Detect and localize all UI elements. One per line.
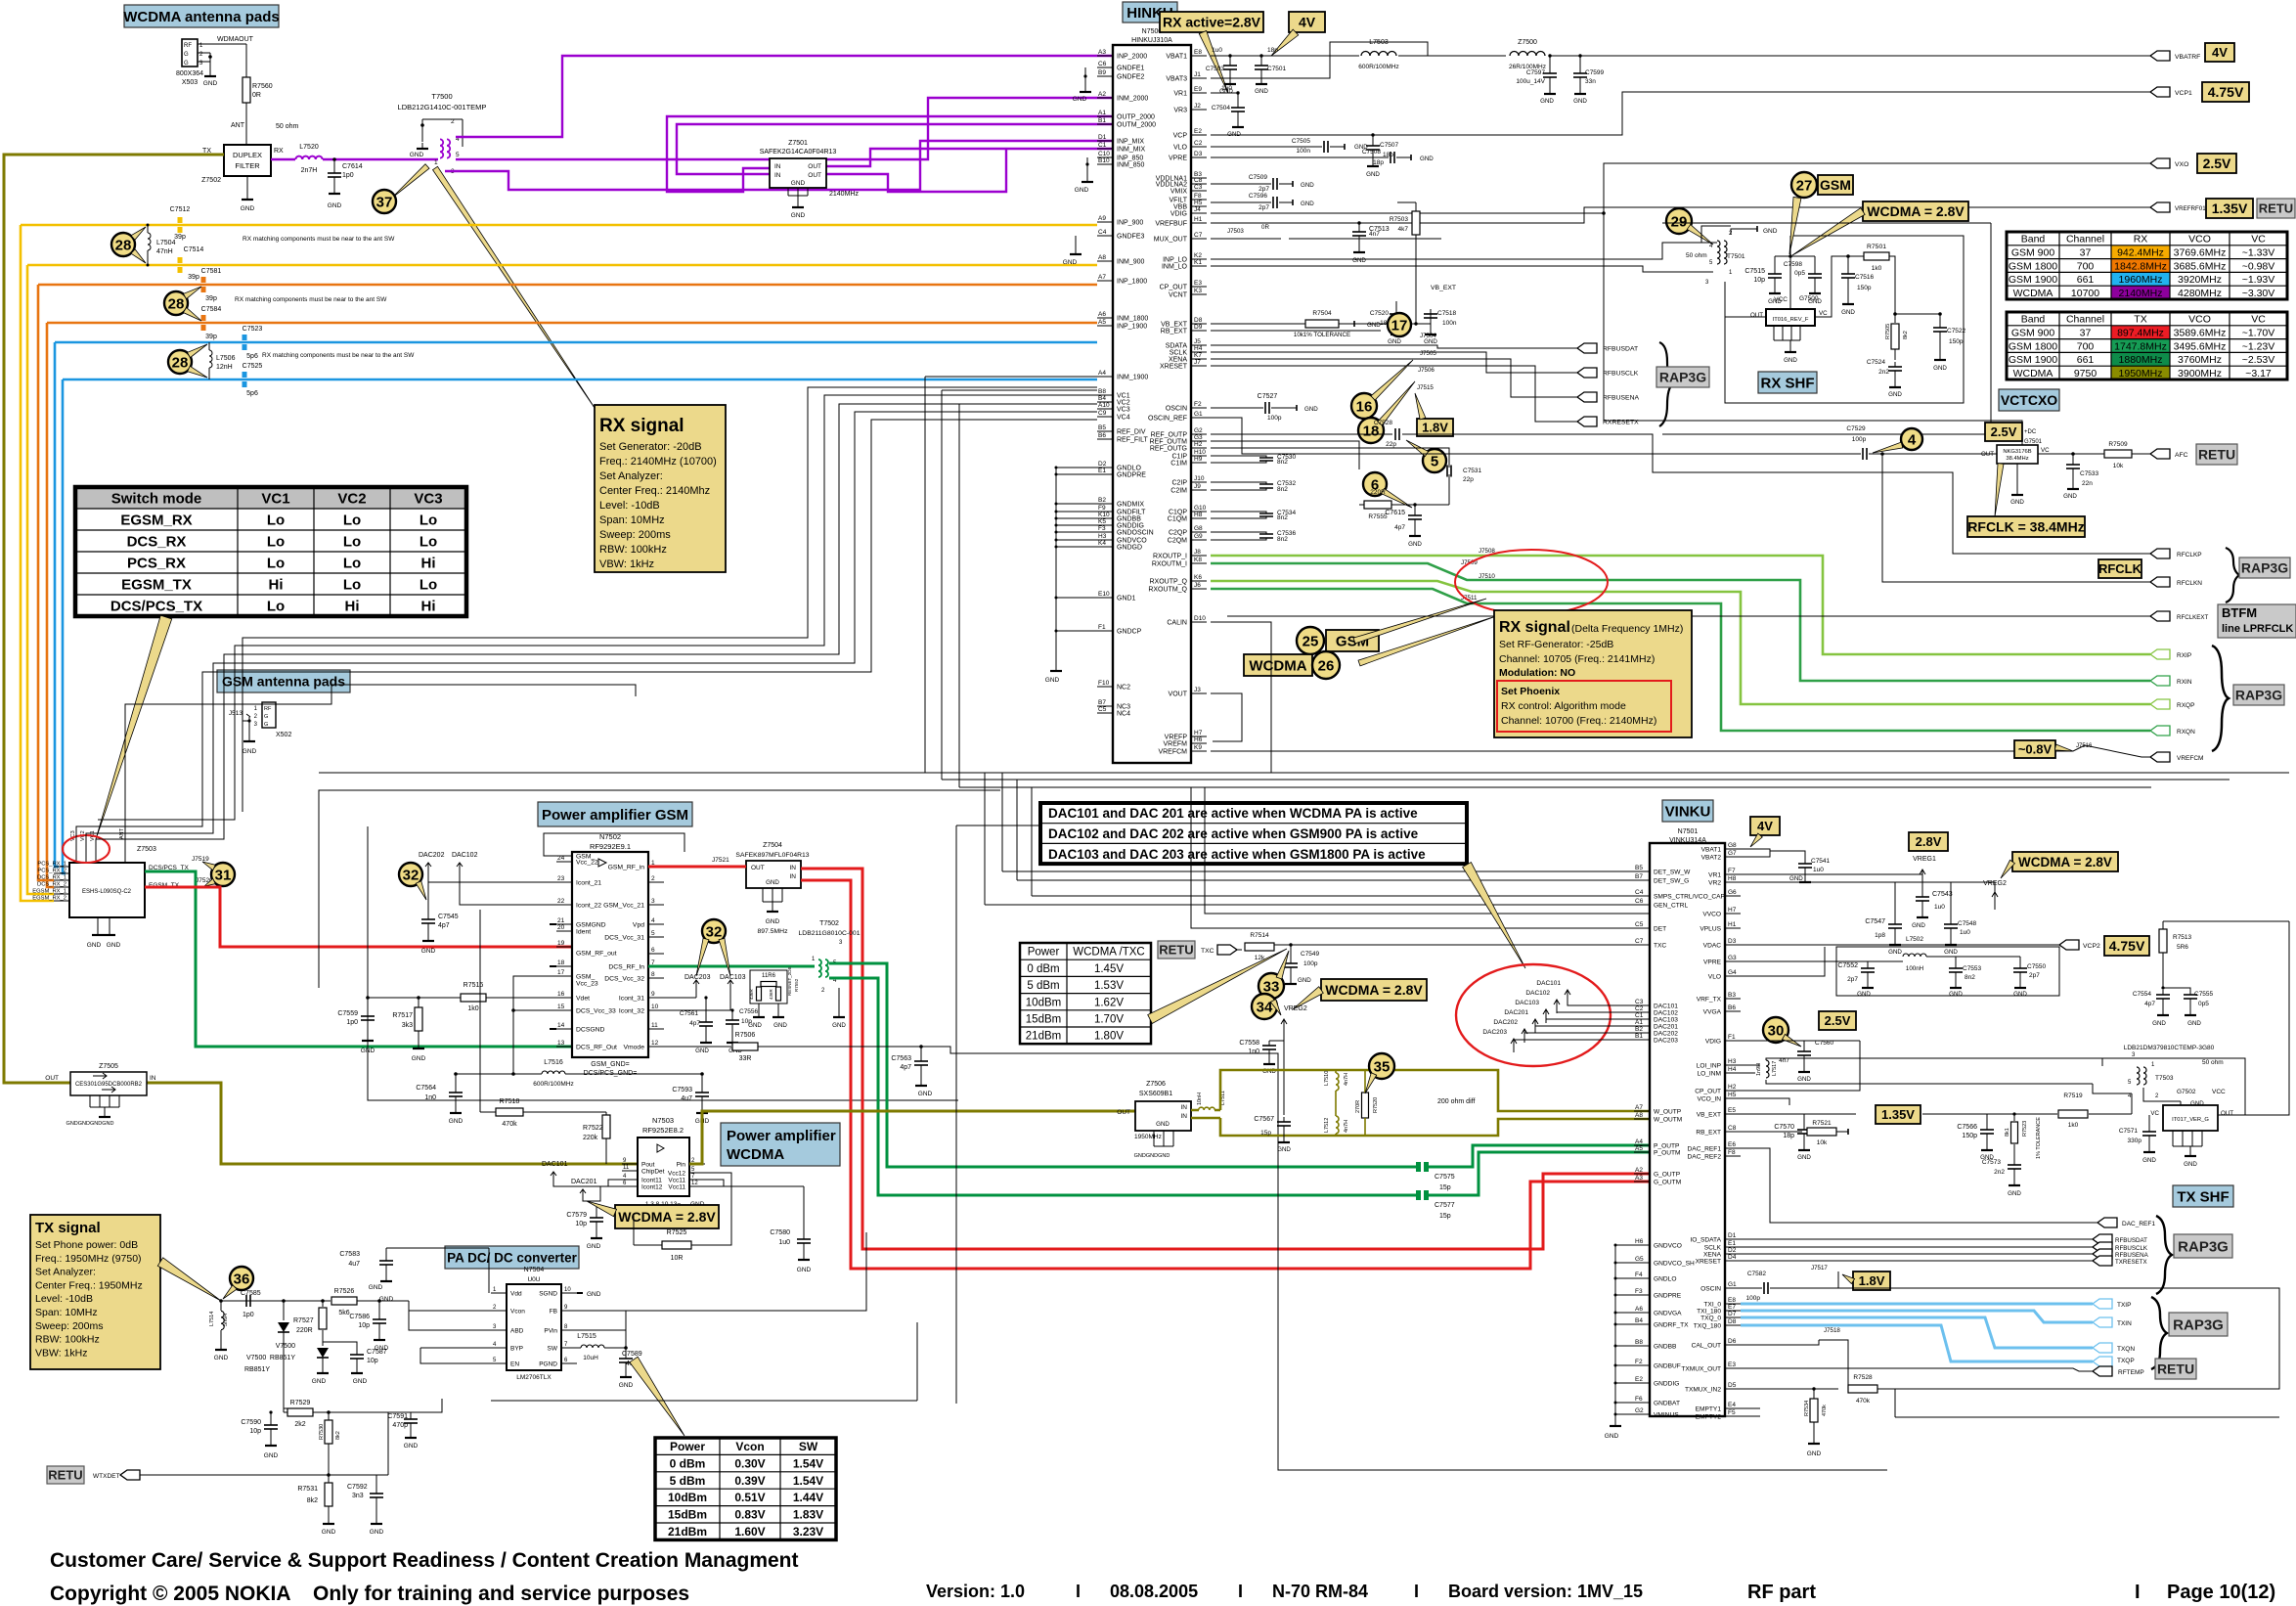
svg-text:3k3: 3k3 [402,1022,413,1029]
svg-text:N7501: N7501 [1678,828,1699,835]
svg-text:10dBm: 10dBm [668,1491,707,1504]
capacitor C7559 [367,1011,369,1016]
connector X503 [182,39,198,67]
svg-text:2: 2 [451,118,455,125]
svg-text:EMPTY1: EMPTY1 [1696,1406,1722,1413]
svg-text:K3: K3 [1194,288,1202,294]
svg-text:GNDBB: GNDBB [1117,516,1141,523]
svg-text:VRF_TX: VRF_TX [1697,997,1722,1004]
svg-text:VBB: VBB [1173,204,1187,211]
svg-text:Lo: Lo [343,533,361,550]
svg-text:Lo: Lo [343,555,361,571]
table RX freq [2111,245,2170,259]
svg-text:8n2: 8n2 [1277,459,1288,466]
svg-text:21dBm: 21dBm [1026,1031,1061,1043]
svg-text:C4: C4 [1635,889,1644,896]
svg-text:50 ohm: 50 ohm [1686,252,1707,259]
svg-text:C7554: C7554 [2133,991,2152,998]
svg-text:C7580: C7580 [770,1229,790,1236]
svg-text:TXI_0: TXI_0 [1703,1302,1721,1309]
svg-text:DAC102 and DAC 202 are ac: DAC102 and DAC 202 are active when GSM90… [1048,826,1419,841]
svg-text:INM_850: INM_850 [1117,162,1145,169]
capacitor C7587 [323,1345,354,1347]
svg-text:K4: K4 [1098,540,1106,547]
svg-text:E2: E2 [1194,128,1202,135]
svg-text:R7504: R7504 [1312,310,1332,317]
svg-text:38.4MHz: 38.4MHz [2006,456,2028,462]
svg-text:A3: A3 [1098,49,1106,56]
svg-text:2p7: 2p7 [2029,972,2040,979]
svg-text:11: 11 [623,1165,630,1171]
svg-text:Ident: Ident [576,929,591,936]
svg-text:BYP: BYP [510,1346,523,1353]
svg-text:C4: C4 [1098,229,1107,236]
svg-text:F9: F9 [1098,505,1106,512]
wires RFCLKP/N [1402,434,2150,554]
capacitor C7577 [1416,1190,1421,1200]
svg-text:J2: J2 [1194,103,1201,110]
wedge to VC pins [96,615,172,839]
svg-text:18p: 18p [1267,47,1278,54]
svg-text:E3: E3 [1728,1361,1736,1368]
svg-text:VCO_IN: VCO_IN [1697,1096,1721,1103]
svg-text:4p7: 4p7 [2144,1001,2155,1007]
capacitor C7579 [596,1213,597,1218]
svg-text:GSM_RF_in: GSM_RF_in [608,865,645,871]
svg-text:1u0: 1u0 [1221,85,1232,92]
svg-text:Hi: Hi [421,598,436,614]
svg-text:~3.17: ~3.17 [2245,368,2272,379]
inductor L7520 [295,156,322,159]
svg-text:C7593: C7593 [672,1087,692,1093]
annotation 4V top [1289,12,1325,32]
RF bus wires [1211,345,1577,348]
svg-text:D3: D3 [1194,151,1203,157]
svg-text:GNDMIX: GNDMIX [1117,502,1144,509]
svg-text:22p: 22p [1386,441,1396,448]
svg-text:Freq.: 2140MHz (10700): Freq.: 2140MHz (10700) [599,456,717,468]
svg-text:21: 21 [557,917,565,924]
svg-text:H8: H8 [1194,512,1203,518]
inductor L7517 [1741,1064,1760,1066]
capacitor C7518 [1430,305,1432,307]
circle 25 GSM [1297,627,1324,654]
svg-text:DAC202: DAC202 [1654,1031,1678,1038]
svg-text:1.45V: 1.45V [1094,963,1124,975]
svg-text:~1.70V: ~1.70V [2242,327,2275,338]
svg-text:CALIN: CALIN [1167,620,1187,627]
label WCDMA antenna pads [124,5,279,27]
antenna switch Z7503 ESHS-L090SQ-C2 [69,863,145,917]
svg-text:C7501: C7501 [1267,66,1287,72]
svg-text:TXQN: TXQN [2117,1346,2135,1353]
label PA DC/DC converter [445,1246,579,1269]
svg-text:4: 4 [1908,431,1917,448]
wires green to VINKU [829,963,1416,1167]
wire olive Pin out to Z7506 [689,1111,1135,1164]
svg-text:PCS_RX: PCS_RX [127,555,186,571]
svg-text:N7504: N7504 [524,1267,545,1273]
svg-text:J7521: J7521 [712,857,729,864]
svg-text:1u0: 1u0 [1934,904,1945,911]
svg-text:~3.30V: ~3.30V [2242,288,2275,299]
svg-text:RFBUSDAT: RFBUSDAT [2115,1237,2147,1244]
svg-text:Level: -10dB: Level: -10dB [599,500,660,512]
svg-text:220R: 220R [296,1327,313,1334]
svg-text:Channel: 10700 (Freq.: 2140MHz: Channel: 10700 (Freq.: 2140MHz) [1501,715,1656,727]
svg-text:U0U: U0U [527,1276,540,1283]
svg-text:A2: A2 [1098,91,1106,98]
svg-text:C7575: C7575 [1435,1174,1455,1181]
svg-text:Power amplifier GSM: Power amplifier GSM [542,807,688,824]
wire yellow EGSM RX row1 [21,224,1097,227]
svg-text:H4: H4 [1194,345,1203,352]
svg-text:GND: GND [2010,499,2024,506]
svg-text:DCS_RX_2: DCS_RX_2 [37,882,66,888]
svg-text:GND: GND [361,1048,375,1054]
svg-text:A4: A4 [1635,1138,1643,1145]
annotation 1.35V [1876,1105,1921,1124]
svg-text:Board version: 1MV_15: Board version: 1MV_15 [1448,1582,1643,1601]
svg-text:2.5V: 2.5V [1991,424,2017,439]
svg-text:TXI_180: TXI_180 [1697,1309,1721,1316]
wire VBAT3 loop [1211,42,1428,78]
svg-text:GNDFE2: GNDFE2 [1117,74,1145,81]
svg-text:C9: C9 [1098,410,1107,417]
svg-text:C7523: C7523 [243,326,263,333]
capacitor C7553 [1955,957,1957,963]
svg-text:DAC201: DAC201 [571,1179,597,1185]
RETU TXC [1158,941,1195,959]
svg-text:GND: GND [587,1291,601,1298]
svg-text:OUT: OUT [2221,1110,2233,1117]
svg-text:VCP: VCP [1173,133,1188,140]
DAC_REF wires [1741,1148,2097,1223]
svg-text:A5: A5 [1098,319,1106,326]
svg-text:1.53V: 1.53V [1094,980,1124,992]
svg-text:C7528: C7528 [1374,420,1393,426]
svg-text:Switch mode: Switch mode [111,490,202,507]
svg-text:VBW: 1kHz: VBW: 1kHz [35,1347,87,1359]
svg-text:8n2: 8n2 [1277,486,1288,493]
svg-text:WCDMA: WCDMA [2013,368,2053,379]
svg-text:DAC_REF1: DAC_REF1 [2122,1221,2155,1227]
svg-text:GND: GND [1301,201,1314,207]
MUX_OUT [1211,238,1281,240]
svg-text:GND: GND [1933,365,1947,372]
CAL_OUT [1741,1340,1819,1345]
svg-text:1% TOLERANCE: 1% TOLERANCE [2036,1117,2042,1159]
svg-text:F3: F3 [1635,1288,1643,1295]
resistor R7526 [284,1300,318,1302]
svg-text:J7: J7 [1194,359,1201,366]
svg-text:4p7: 4p7 [1394,524,1405,531]
svg-text:J7517: J7517 [1811,1265,1828,1271]
svg-text:VPRE: VPRE [1703,959,1722,966]
svg-text:E3: E3 [1194,280,1202,287]
svg-text:PGND: PGND [539,1361,557,1368]
svg-text:GNDPRE: GNDPRE [1654,1293,1682,1300]
svg-text:C7567: C7567 [1254,1116,1274,1123]
wire orange DCS RX row1 [38,284,1097,287]
svg-text:B1: B1 [1635,1033,1643,1040]
circle 16 [1351,393,1377,419]
svg-text:Copyright © 2005 NOKIA: Copyright © 2005 NOKIA [50,1583,291,1605]
wire VC to AFC [2038,453,2108,455]
svg-text:VBAT1: VBAT1 [1166,54,1187,61]
svg-text:K5: K5 [1098,518,1106,525]
annotation ~0.8V [2014,740,2055,758]
svg-text:R7552: R7552 [794,978,799,992]
svg-text:15p: 15p [1260,1130,1271,1137]
svg-text:GND: GND [2187,1020,2201,1027]
capacitor C7561 [705,998,707,1017]
svg-text:GND: GND [766,879,779,886]
svg-text:C2IP: C2IP [1171,480,1187,487]
svg-text:VPLUS: VPLUS [1700,926,1721,933]
svg-text:INP_LO: INP_LO [1163,257,1187,264]
circle 28 c [168,350,192,374]
svg-text:GNDFE1: GNDFE1 [1117,66,1145,72]
wire red EGSM TX [145,887,572,947]
svg-text:VC1: VC1 [1117,393,1130,400]
svg-text:VB_EXT: VB_EXT [1697,1112,1721,1119]
svg-text:RFCLKP: RFCLKP [2177,552,2202,558]
svg-text:J7504: J7504 [1420,333,1436,339]
svg-text:4u7: 4u7 [348,1261,360,1268]
svg-text:F5: F5 [1728,1409,1736,1416]
svg-text:A5: A5 [1635,1145,1643,1152]
svg-text:C7592: C7592 [347,1484,368,1491]
svg-text:2p7: 2p7 [1258,186,1269,193]
svg-text:C7533: C7533 [2080,470,2099,477]
svg-text:4280MHz: 4280MHz [2178,288,2222,299]
svg-text:RETU: RETU [48,1468,82,1483]
svg-text:150p: 150p [1962,1133,1977,1139]
DAC table [1040,823,1467,825]
wedge to power table [630,1357,684,1436]
svg-text:Hi: Hi [345,598,360,614]
svg-text:ChipDet: ChipDet [641,1169,665,1176]
svg-text:VC: VC [2251,314,2266,326]
svg-text:VLO: VLO [1173,145,1188,152]
svg-text:C7522: C7522 [1947,328,1966,335]
svg-text:19: 19 [557,940,565,947]
svg-text:18p: 18p [1783,1133,1794,1139]
svg-text:R7503: R7503 [1390,216,1409,223]
svg-text:GSM_RF_out: GSM_RF_out [576,951,617,958]
svg-text:R7509: R7509 [2108,441,2128,448]
svg-text:DET_SW_W: DET_SW_W [1654,870,1691,876]
capacitor C7571 [2148,1115,2150,1127]
svg-text:H7: H7 [1194,730,1203,736]
svg-text:IO_SDATA: IO_SDATA [1690,1237,1721,1244]
wire TX detect node [160,1300,221,1302]
svg-text:VBATRF: VBATRF [2175,54,2200,61]
svg-text:C7549: C7549 [1301,951,1320,958]
svg-text:8k2: 8k2 [307,1497,318,1504]
circle 34 [1252,994,1277,1019]
svg-text:Span: 10MHz: Span: 10MHz [35,1307,98,1318]
svg-text:B2: B2 [1635,1026,1643,1033]
svg-text:700: 700 [2077,260,2095,272]
svg-text:LDB212G1410C-001TEMP: LDB212G1410C-001TEMP [398,103,487,112]
svg-text:VREG2: VREG2 [1284,1005,1307,1012]
svg-text:C7582: C7582 [1747,1271,1767,1277]
svg-text:DAC101: DAC101 [542,1161,568,1168]
svg-text:C7596: C7596 [1249,193,1268,200]
capacitor C7614 [332,157,336,161]
wire red verticals to VINKU [801,869,1650,1249]
svg-text:C7598: C7598 [1784,261,1803,268]
svg-text:0.30V: 0.30V [734,1456,765,1470]
resistor R7505 [1893,312,1897,316]
wires CP_OUT VCO_IN [1741,1041,1860,1091]
svg-text:1.70V: 1.70V [1094,1014,1124,1026]
svg-text:RX signal: RX signal [599,416,684,436]
svg-text:DUPLEX: DUPLEX [233,151,262,159]
svg-text:GND: GND [1424,338,1437,345]
capacitor C7570 [1862,1113,1864,1115]
svg-text:SCLK: SCLK [1170,350,1188,357]
svg-text:DCS/PCS_TX: DCS/PCS_TX [110,598,202,614]
capacitor C7575 [1416,1162,1421,1172]
svg-text:L7517: L7517 [1772,1061,1778,1076]
svg-text:8k2: 8k2 [335,1431,341,1440]
svg-text:C7552: C7552 [1837,962,1858,969]
svg-text:H3: H3 [1098,533,1107,540]
svg-text:3: 3 [651,898,655,905]
svg-text:B8: B8 [1635,1339,1643,1346]
svg-text:3n3: 3n3 [352,1493,364,1499]
svg-text:GND: GND [587,1243,601,1250]
svg-text:DCSGND: DCSGND [576,1027,605,1034]
svg-text:PVin: PVin [544,1328,557,1335]
svg-text:ESHS-L090SQ-C2: ESHS-L090SQ-C2 [82,889,132,895]
svg-text:V7500: V7500 [276,1343,295,1350]
svg-text:GNDVGA: GNDVGA [1654,1311,1682,1317]
svg-text:32: 32 [403,867,419,883]
svg-text:EGSM_RX: EGSM_RX [120,512,192,528]
svg-text:1u0: 1u0 [778,1239,790,1246]
circle 31 [211,863,235,886]
capacitor C7558 [1268,1041,1270,1046]
svg-text:Z7500: Z7500 [1518,39,1537,46]
svg-text:F10: F10 [1098,680,1110,687]
svg-text:RAP3G: RAP3G [2241,560,2288,576]
svg-text:GND: GND [1789,875,1803,882]
svg-text:GNDVCO: GNDVCO [1654,1243,1682,1250]
svg-text:1842.8MHz: 1842.8MHz [2114,260,2167,272]
svg-text:RB_EXT: RB_EXT [1161,329,1188,335]
svg-text:RXQP: RXQP [2177,702,2194,709]
svg-text:C7548: C7548 [1958,920,1977,927]
circle 18 [1358,418,1384,443]
svg-text:D9: D9 [1194,324,1203,331]
RX out green wires [1211,556,2150,654]
svg-text:Z7502: Z7502 [201,177,221,184]
svg-text:C7563: C7563 [891,1055,911,1062]
capacitor C7507 [1371,133,1374,136]
svg-text:18p: 18p [1373,159,1384,166]
svg-text:GND: GND [1857,991,1871,998]
svg-text:VCO: VCO [2188,314,2211,326]
svg-text:A7: A7 [1635,1104,1643,1111]
annotation 2.5V [1985,423,2022,441]
svg-text:VINKU: VINKU [1665,803,1711,820]
svg-text:TXQ_0: TXQ_0 [1700,1316,1721,1322]
svg-text:GNDRF_TX: GNDRF_TX [1654,1322,1689,1329]
svg-text:Lo: Lo [419,533,437,550]
svg-text:GND: GND [1388,338,1401,345]
svg-text:RFCLKEXT: RFCLKEXT [2177,614,2209,621]
svg-text:H2: H2 [1194,441,1203,448]
svg-text:RETU: RETU [1159,943,1193,958]
svg-text:OUT: OUT [808,163,821,170]
wire red to Z7504 [648,866,746,869]
svg-text:GND: GND [1277,1146,1291,1153]
svg-text:17: 17 [1391,317,1408,334]
svg-text:AFC: AFC [2175,452,2188,459]
inductor L7504 [147,225,149,233]
svg-text:16: 16 [1356,398,1373,415]
resistor R7516 [461,994,486,1002]
svg-text:14: 14 [557,1022,565,1029]
svg-text:28: 28 [168,295,185,312]
svg-text:OUT: OUT [1117,1109,1130,1116]
svg-text:VBAT2: VBAT2 [1701,855,1722,862]
svg-text:Band: Band [2021,314,2046,326]
svg-text:GSM 1900: GSM 1900 [2009,274,2057,286]
svg-text:EGSM_RX_1: EGSM_RX_1 [32,889,66,895]
svg-text:R7525: R7525 [667,1229,687,1236]
svg-text:VMINUS: VMINUS [1654,1412,1679,1419]
svg-text:436R: 436R [769,988,773,1000]
svg-text:H1: H1 [1194,216,1203,223]
svg-text:VC2: VC2 [1117,400,1130,407]
svg-text:08.08.2005: 08.08.2005 [1110,1582,1198,1601]
svg-text:Version: 1.0: Version: 1.0 [926,1582,1025,1601]
RFBUS connectors group [1741,1238,2093,1240]
svg-text:VDDLNA2: VDDLNA2 [1156,182,1187,189]
svg-text:C5: C5 [1098,706,1107,713]
svg-text:RF part: RF part [1747,1582,1816,1603]
svg-text:H4: H4 [1728,1066,1737,1073]
svg-text:T7502: T7502 [819,920,839,927]
svg-text:TXC: TXC [1201,948,1214,955]
svg-text:G4: G4 [1728,969,1737,976]
svg-text:J7505: J7505 [1420,350,1436,357]
svg-text:DAC101 and DAC 201 are ac: DAC101 and DAC 201 are active when WCDMA… [1048,806,1418,821]
svg-text:Freq.: 1950MHz (9750): Freq.: 1950MHz (9750) [35,1253,142,1265]
svg-text:C7570: C7570 [1774,1124,1794,1131]
svg-text:2k2: 2k2 [294,1421,305,1428]
label RFCLK [2098,559,2141,578]
resnet R7552 11R6 [750,970,787,1004]
svg-text:3495.6MHz: 3495.6MHz [2174,340,2227,352]
svg-text:Z7501: Z7501 [788,140,808,147]
svg-text:1: 1 [434,159,438,166]
circle 32 b [702,919,726,943]
svg-text:C2QM: C2QM [1168,538,1187,545]
svg-text:GND: GND [2063,493,2077,500]
svg-text:GND: GND [241,205,255,212]
svg-text:100p: 100p [1267,415,1282,422]
svg-text:RAP3G: RAP3G [1659,370,1706,385]
svg-text:H2: H2 [1728,1084,1737,1091]
svg-text:G: G [184,61,189,67]
svg-text:4.75V: 4.75V [2109,938,2145,954]
